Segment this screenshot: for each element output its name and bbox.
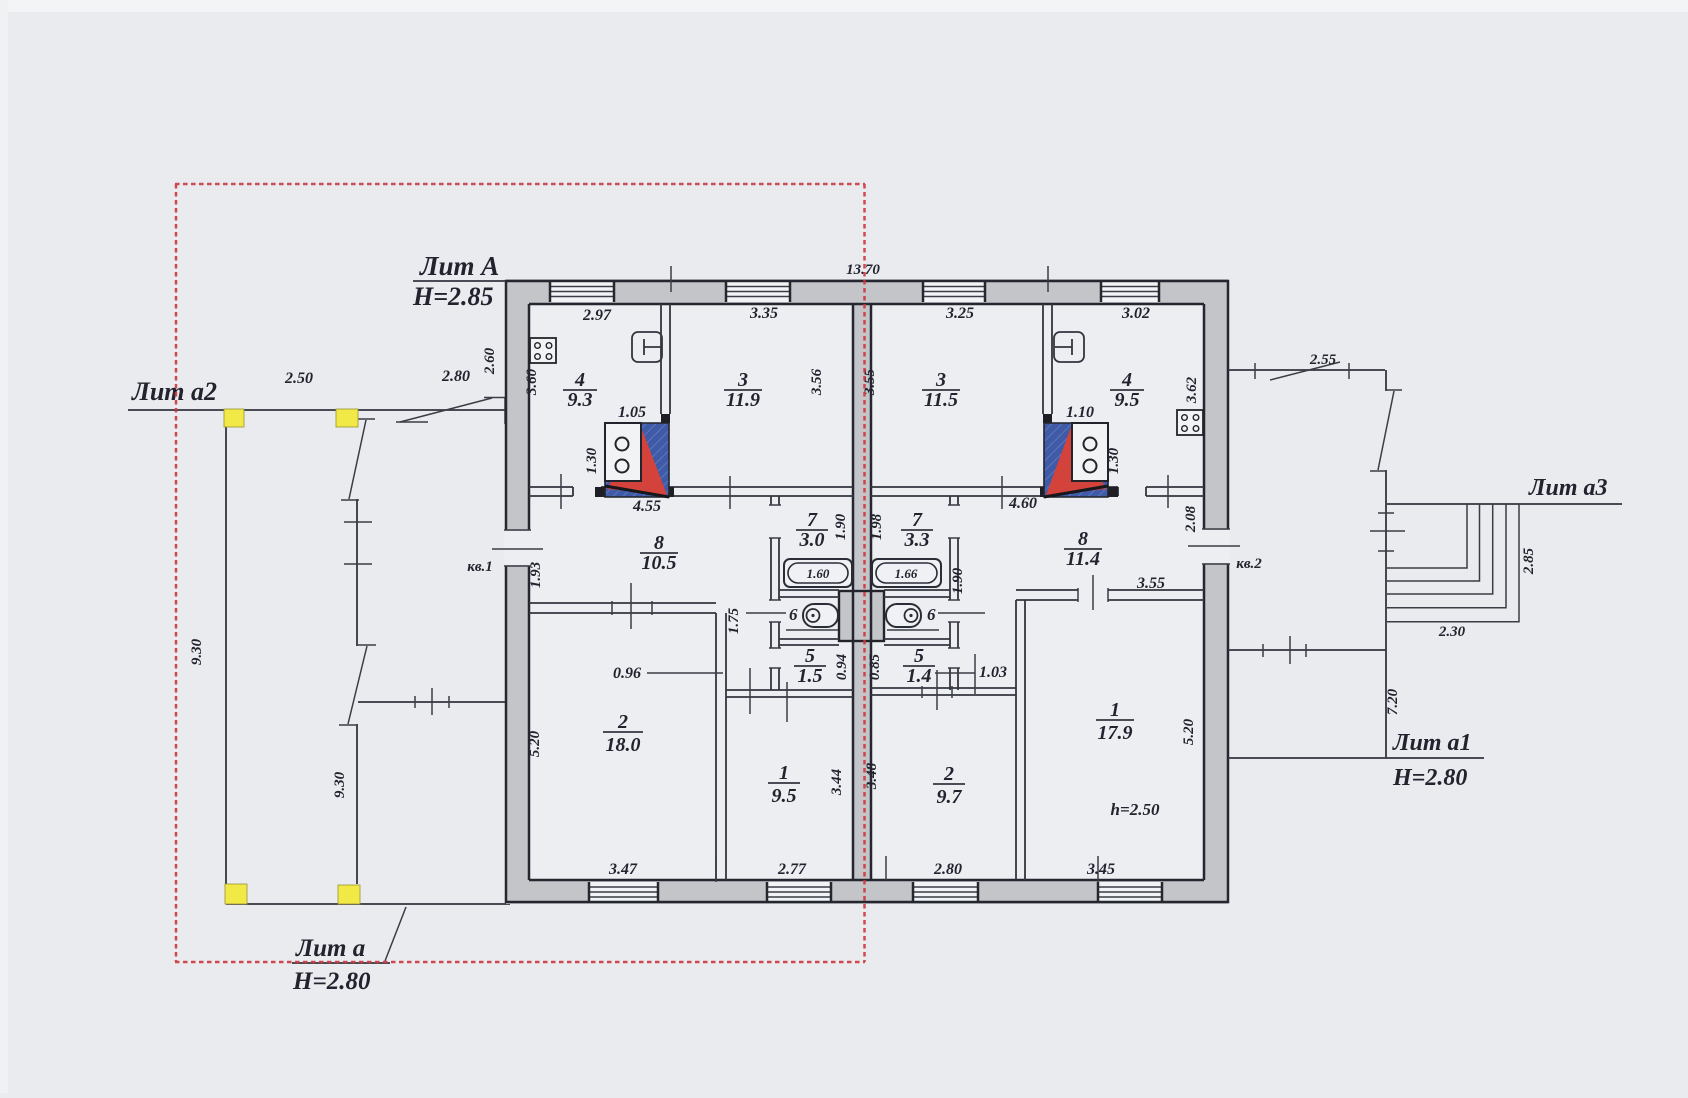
svg-text:6: 6 (789, 605, 798, 624)
building interior (506, 279, 1228, 904)
svg-text:3.0: 3.0 (799, 529, 825, 551)
svg-text:0.96: 0.96 (613, 665, 641, 682)
porch inner line (358, 701, 506, 703)
ticks (922, 670, 952, 710)
svg-text:5: 5 (914, 645, 924, 667)
svg-text:5: 5 (805, 645, 815, 667)
svg-text:6: 6 (927, 605, 936, 624)
svg-text:1.03: 1.03 (979, 664, 1007, 681)
center wall edges (852, 304, 855, 880)
svg-text:17.9: 17.9 (1098, 722, 1133, 744)
svg-text:7: 7 (807, 509, 818, 531)
svg-text:1.93: 1.93 (528, 561, 544, 588)
svg-text:0.94: 0.94 (834, 653, 850, 680)
window bottom W8 (1098, 882, 1162, 902)
inner boundary top (529, 303, 1204, 306)
svg-text:9.3: 9.3 (568, 389, 593, 411)
porch top line (128, 409, 506, 411)
window top W3 (923, 281, 985, 302)
room 4/9.5 (1110, 369, 1144, 411)
wall fill center (853, 304, 871, 880)
svg-text:9.30: 9.30 (189, 638, 205, 665)
window bottom W7 (913, 882, 978, 902)
room1 walls right (1016, 590, 1204, 880)
tick (1097, 856, 1099, 882)
partition rooms 2-1 (716, 613, 726, 880)
svg-text:3.47: 3.47 (608, 861, 638, 878)
room 1/17.9 (1096, 699, 1134, 744)
wall room1 top (726, 690, 853, 697)
bathtub 1.66 (872, 559, 941, 587)
svg-text:Лит а3: Лит а3 (1528, 475, 1607, 501)
svg-text:1.05: 1.05 (618, 404, 646, 421)
stove 4-burner right (1177, 410, 1203, 435)
bathtub 1.60 (784, 559, 852, 587)
porch bottom line (226, 903, 510, 905)
window top W1 (550, 281, 614, 302)
svg-text:1.5: 1.5 (798, 665, 823, 687)
tick (670, 266, 672, 292)
wall under rooms 4-3 (529, 487, 853, 496)
chimney bulge (839, 591, 884, 641)
porch left post line (225, 427, 227, 884)
svg-text:9.5: 9.5 (1115, 389, 1140, 411)
door ticks (612, 583, 652, 629)
svg-text:Лит а: Лит а (295, 935, 365, 962)
tick (414, 696, 416, 708)
svg-text:9.5: 9.5 (772, 785, 797, 807)
wall fill right (1204, 279, 1228, 904)
svg-text:H=2.80: H=2.80 (292, 968, 371, 995)
svg-text:7.20: 7.20 (1385, 688, 1401, 715)
svg-text:1.60: 1.60 (807, 566, 830, 581)
svg-text:3.02: 3.02 (1121, 305, 1150, 322)
break symbol (1370, 390, 1402, 471)
svg-text:3.45: 3.45 (1086, 861, 1115, 878)
tick (344, 521, 372, 523)
svg-text:H=2.80: H=2.80 (1392, 765, 1467, 791)
wall under rooms 3-4 right (871, 487, 1204, 496)
porch mid post line (356, 421, 358, 884)
wall room2 top right (871, 688, 1016, 695)
svg-text:2.60: 2.60 (482, 347, 498, 375)
svg-text:1.90: 1.90 (950, 567, 966, 594)
svg-text:0.85: 0.85 (867, 653, 883, 680)
room 5/1.5 (794, 645, 826, 687)
svg-text:3.62: 3.62 (1184, 376, 1200, 404)
door kv2 opening (1202, 530, 1230, 563)
window bottom W6 (767, 882, 831, 902)
furnace left (605, 423, 669, 497)
toilet room top wall (779, 590, 839, 597)
tick (344, 563, 372, 565)
svg-text:Лит а2: Лит а2 (131, 377, 217, 406)
svg-text:4: 4 (574, 369, 585, 391)
svg-text:5.20: 5.20 (1181, 718, 1197, 745)
wall fill bottom (506, 880, 1228, 904)
svg-text:11.9: 11.9 (726, 389, 760, 411)
red dashed rect (175, 184, 865, 962)
top line (1228, 369, 1385, 371)
tick (729, 476, 731, 509)
svg-text:4: 4 (1121, 369, 1132, 391)
svg-text:2: 2 (943, 763, 954, 785)
svg-text:18.0: 18.0 (606, 734, 641, 756)
svg-text:h=2.50: h=2.50 (1111, 800, 1160, 819)
tick (1001, 476, 1003, 509)
ticks (1263, 636, 1306, 664)
svg-text:3.55: 3.55 (1136, 575, 1165, 592)
tick (1167, 475, 1169, 508)
svg-text:3.56: 3.56 (809, 368, 825, 396)
tick (560, 474, 562, 509)
room 7/3.3 (901, 509, 933, 551)
svg-text:Лит а1: Лит а1 (1392, 730, 1471, 756)
yellow post (225, 884, 247, 904)
svg-text:кв.1: кв.1 (467, 559, 493, 575)
break symbol on top line (396, 398, 508, 423)
right edge (1385, 370, 1387, 758)
break symbol (1255, 362, 1349, 380)
svg-text:2.85: 2.85 (1521, 547, 1537, 575)
break symbol (339, 645, 376, 725)
bathroom partition (771, 496, 779, 690)
svg-text:3.60: 3.60 (524, 368, 540, 396)
tick (1047, 266, 1049, 292)
svg-text:3.44: 3.44 (829, 768, 845, 796)
sink right (1054, 332, 1084, 362)
svg-text:2.50: 2.50 (284, 370, 313, 387)
dim line (938, 612, 985, 614)
yellow post (338, 885, 360, 904)
stove 4-burner (530, 338, 556, 363)
inner boundary right (1203, 304, 1206, 880)
ticks on edge (1370, 513, 1405, 551)
svg-text:H=2.85: H=2.85 (412, 282, 494, 311)
svg-text:2.55: 2.55 (1309, 352, 1337, 368)
partition rooms 4-3 (661, 304, 670, 414)
inner boundary bottom (529, 879, 1204, 882)
svg-text:кв.2: кв.2 (1236, 556, 1262, 572)
sink (632, 332, 662, 362)
room 3/11.5 (922, 369, 960, 411)
svg-text:3.48: 3.48 (864, 762, 880, 790)
room 1/9.5 (768, 762, 800, 807)
door kv1 opening (504, 531, 531, 565)
partition rooms 3-4 right (1043, 304, 1052, 414)
tick (431, 688, 433, 715)
window top W2 (726, 281, 790, 302)
svg-text:1.98: 1.98 (869, 513, 885, 540)
svg-text:10.5: 10.5 (642, 552, 677, 574)
svg-text:8: 8 (654, 532, 664, 554)
toilet room walls right (884, 590, 950, 645)
svg-text:1.66: 1.66 (895, 566, 918, 581)
svg-text:2.80: 2.80 (933, 861, 962, 878)
bottom line (1228, 757, 1484, 759)
svg-text:1.30: 1.30 (1106, 447, 1122, 474)
svg-text:2.97: 2.97 (582, 307, 612, 324)
room 4/9.3 (563, 369, 597, 411)
svg-text:2: 2 (617, 711, 628, 733)
svg-text:9.7: 9.7 (937, 786, 963, 808)
stairs top line (1387, 503, 1622, 505)
room 8/11.4 (1064, 528, 1102, 570)
bathroom partition right (950, 496, 958, 690)
svg-text:2.77: 2.77 (777, 861, 807, 878)
break symbol (341, 419, 375, 500)
window bottom W5 (589, 882, 658, 902)
inner line (1228, 649, 1386, 651)
room 5/1.4 (903, 645, 935, 687)
wall room2 top (529, 603, 716, 613)
room 3/11.9 (724, 369, 762, 411)
svg-text:1.10: 1.10 (1066, 404, 1094, 421)
svg-text:3.35: 3.35 (749, 305, 778, 322)
svg-text:1: 1 (1110, 699, 1120, 721)
svg-text:2.30: 2.30 (1438, 624, 1466, 640)
wall fill top (506, 279, 1228, 304)
wall fill left (506, 279, 529, 904)
svg-text:11.4: 11.4 (1066, 548, 1100, 570)
svg-text:1.30: 1.30 (584, 447, 600, 474)
svg-text:11.5: 11.5 (924, 389, 958, 411)
svg-text:1.90: 1.90 (833, 513, 849, 540)
toilet right (886, 604, 939, 630)
room 2/9.7 (933, 763, 965, 808)
svg-text:3.25: 3.25 (945, 305, 974, 322)
svg-text:3: 3 (935, 369, 946, 391)
tick at wall (504, 398, 506, 424)
svg-text:1.75: 1.75 (726, 607, 742, 634)
ticks (750, 668, 787, 722)
svg-text:3.55: 3.55 (862, 368, 878, 396)
room 8/10.5 (640, 532, 678, 574)
svg-text:5.20: 5.20 (527, 730, 543, 757)
svg-text:3.3: 3.3 (904, 529, 930, 551)
toilet room bottom wall (779, 639, 839, 645)
svg-text:2.80: 2.80 (441, 368, 470, 385)
yellow post (336, 409, 358, 427)
svg-text:9.30: 9.30 (332, 771, 348, 798)
svg-text:1: 1 (779, 762, 789, 784)
svg-text:8: 8 (1078, 528, 1088, 550)
svg-text:4.60: 4.60 (1008, 495, 1037, 512)
leader line (385, 907, 406, 961)
svg-text:4.55: 4.55 (632, 498, 661, 515)
toilet (786, 604, 838, 630)
dim line (746, 612, 786, 614)
room 2/18.0 (603, 711, 643, 756)
stair steps (1387, 504, 1519, 622)
room 7/3.0 (796, 509, 828, 551)
furnace right (1044, 423, 1108, 497)
tick (715, 856, 717, 882)
svg-text:3: 3 (737, 369, 748, 391)
tick (448, 696, 450, 708)
inner boundary left (528, 304, 531, 880)
svg-text:1.4: 1.4 (907, 665, 932, 687)
yellow post (224, 409, 244, 427)
window top W4 (1101, 281, 1159, 302)
svg-text:Лит А: Лит А (419, 251, 499, 281)
svg-text:2.08: 2.08 (1183, 505, 1199, 533)
svg-text:7: 7 (912, 509, 923, 531)
outer boundary (506, 281, 1228, 902)
